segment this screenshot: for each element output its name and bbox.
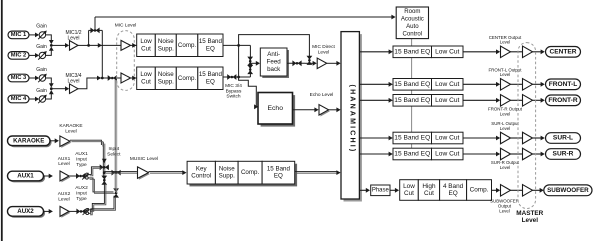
switch MIC1/2 select node [50, 44, 53, 47]
svg-text:Low Cut: Low Cut [435, 151, 459, 158]
svg-text:(HANAMICHI): (HANAMICHI) [349, 85, 356, 154]
wire echo out [293, 109, 316, 111]
switch AUX2 Input Type [76, 209, 85, 215]
wire to output jack FRONT-R [533, 99, 542, 101]
svg-text:Key: Key [196, 166, 208, 173]
svg-text:AUX2: AUX2 [58, 191, 71, 197]
wire bus to Phase [359, 189, 366, 191]
wire MIC2 to select [46, 50, 52, 56]
output jack CENTER [546, 47, 581, 58]
input jack AUX2 [8, 207, 46, 218]
wire to MIC3/4 Level amp [51, 88, 65, 90]
wire direct tap top bar [89, 29, 103, 31]
wire to output jack FRONT-L [533, 83, 542, 85]
label KARAOKE Level [59, 123, 82, 134]
wire AF bypass top [239, 35, 310, 57]
svg-text:Gain: Gain [36, 88, 47, 94]
svg-text:Level: Level [522, 217, 539, 224]
label MASTER Level [516, 210, 543, 224]
wire to master amp sub [511, 189, 523, 191]
node F junction [305, 62, 314, 64]
switch AF out [292, 60, 301, 66]
wire AUX1 lower branch [88, 178, 113, 192]
svg-text:AUX2: AUX2 [17, 208, 34, 215]
output jack SUBWOOFER [544, 185, 592, 196]
amp MIC1/2 Level [70, 41, 79, 51]
wire music chain out stereo [295, 171, 337, 173]
svg-text:15 Band: 15 Band [267, 166, 291, 173]
switch arm AUX1 [82, 173, 88, 180]
box sub Comp. [467, 180, 492, 201]
wire row2 EQ out [223, 76, 250, 78]
output jack FRONT-L [546, 79, 581, 90]
svg-text:Echo: Echo [268, 105, 284, 112]
label Input Select [107, 146, 121, 157]
label Echo Level [310, 92, 334, 98]
svg-text:MIC 4: MIC 4 [11, 96, 27, 102]
svg-text:Room: Room [404, 8, 420, 15]
frame left border [1, 0, 3, 241]
gain pot Gain (MIC 4) [38, 95, 47, 104]
box Low Cut (FRONT-R) [432, 95, 464, 107]
svg-text:4 Band: 4 Band [443, 183, 464, 190]
wire to output jack CENTER [533, 51, 542, 53]
label AUX2 Level [58, 191, 71, 202]
svg-text:Low Cut: Low Cut [435, 97, 459, 104]
arrow KARAOKE drop [102, 159, 107, 163]
amp FRONT-L master level [523, 79, 533, 91]
switch row2 input select [108, 75, 117, 81]
wire top line to Room Acoustic [95, 16, 392, 18]
wire MIC3 to gain [29, 77, 36, 79]
wire amp to node B [78, 44, 89, 46]
box music chain shadow [190, 164, 298, 187]
label MIC 3/4 Bypass Switch [225, 83, 242, 100]
svg-text:15 Band EQ: 15 Band EQ [394, 97, 430, 104]
switch music bus [112, 170, 121, 176]
wire KARAOKE to amp [50, 140, 56, 142]
wire riser to top line [94, 17, 96, 30]
wire AUX2 upper branch [89, 184, 105, 210]
box music Noise Supp. [215, 161, 238, 184]
wire to output jack SUR-R [533, 153, 542, 155]
wire to output jack SUBWOOFER [533, 189, 541, 191]
svg-text:Control: Control [403, 30, 423, 37]
wire MIC1 to gain [29, 34, 36, 36]
label MUSIC Level [130, 156, 158, 162]
svg-text:MIC 1: MIC 1 [11, 32, 27, 38]
svg-text:AUX1: AUX1 [75, 151, 88, 157]
svg-text:EQ: EQ [206, 45, 215, 52]
label CENTER Output Level [489, 35, 522, 45]
wire bus to FRONT-R EQ [359, 99, 389, 101]
switch AF bypass join [307, 56, 313, 65]
label SUR-L Output Level [491, 121, 519, 131]
input jack MIC 1 [8, 31, 29, 39]
wire bus to SUR-R EQ [359, 153, 389, 155]
amp subwoofer output level [501, 185, 511, 197]
box Echo [258, 93, 295, 127]
output jack SUR-L [546, 133, 581, 144]
label MIC Level [115, 23, 137, 29]
svg-text:Level: Level [499, 208, 510, 213]
node C junction row2 [101, 77, 104, 80]
label MIC Direct Level [312, 44, 335, 55]
amp MIC level row2 [121, 73, 131, 83]
amp FRONT-R master level [523, 95, 533, 107]
svg-text:SUBWOOFER: SUBWOOFER [547, 187, 589, 194]
amp CENTER output level [501, 46, 511, 58]
svg-text:Supp.: Supp. [158, 45, 174, 52]
svg-text:MASTER: MASTER [516, 210, 543, 217]
box Low Cut (SUR-R) [432, 148, 464, 160]
svg-text:EQ: EQ [206, 78, 215, 85]
amp MUSIC Level [138, 167, 150, 180]
amp CENTER master level [523, 46, 533, 58]
wire to FRONT-R output level amp [463, 99, 497, 101]
svg-text:Noise: Noise [219, 166, 235, 173]
svg-text:Level: Level [500, 126, 511, 131]
label AUX1 Level [58, 156, 71, 167]
svg-text:Supp.: Supp. [219, 173, 235, 180]
wire to master amp FRONT-R [511, 99, 523, 101]
svg-text:AUX1: AUX1 [17, 173, 34, 180]
svg-text:15 Band EQ: 15 Band EQ [394, 81, 430, 88]
box chain row2 Noise Supp. [155, 67, 176, 90]
svg-text:Gain: Gain [36, 67, 47, 73]
input jack MIC 3 [8, 74, 29, 82]
svg-text:Level: Level [500, 72, 511, 77]
svg-text:Gain: Gain [36, 44, 47, 50]
svg-text:15 Band EQ: 15 Band EQ [394, 48, 430, 55]
label Gain (MIC 4) [36, 88, 47, 94]
wire AUX1 to amp [44, 175, 50, 177]
wire bus to CENTER EQ [359, 51, 389, 53]
switch music-bus mic route [113, 188, 119, 197]
box 15 Band EQ (SUR-L) [393, 132, 432, 144]
node G bus start [103, 171, 106, 174]
svg-text:back: back [267, 66, 281, 73]
wire Phase to Low Cut [390, 189, 396, 191]
wire MUSIC bus to amp [104, 171, 137, 173]
wire to master amp CENTER [511, 51, 523, 53]
label Gain (MIC 1) [36, 24, 47, 30]
label AUX2 Input Type [75, 185, 88, 202]
svg-text:Comp.: Comp. [241, 169, 260, 176]
svg-text:Input: Input [76, 157, 87, 163]
svg-text:KARAOKE: KARAOKE [59, 123, 82, 129]
wire to output jack SUR-L [533, 137, 542, 139]
amp SUR-L master level [523, 132, 533, 144]
svg-text:MIC 3: MIC 3 [11, 75, 27, 81]
box 15 Band EQ (SUR-R) [393, 148, 432, 160]
svg-text:Level: Level [318, 49, 329, 55]
svg-text:Feed: Feed [267, 59, 282, 66]
wire AUX2 lower branch [89, 196, 114, 214]
label MIC1/2 Level [65, 30, 81, 42]
svg-text:Cut: Cut [141, 78, 151, 85]
node D junction [237, 44, 240, 47]
wire KARAOKE stereo to selector [70, 140, 102, 145]
wire node D to node E vertical [238, 45, 240, 77]
switch anti-feedback in upper [247, 57, 253, 66]
svg-text:EQ: EQ [448, 190, 457, 197]
svg-text:FRONT-L: FRONT-L [549, 81, 578, 88]
wire anti-feedback feed vertical [249, 45, 251, 77]
svg-text:EQ: EQ [274, 173, 283, 180]
wire to CENTER output level amp [463, 51, 497, 53]
box sub 4 Band EQ [440, 180, 467, 201]
label FRONT-R Output Level [488, 107, 523, 117]
wire row2 to capsule [96, 77, 108, 79]
wire MIC1 to select [46, 35, 52, 41]
contact AUX2 lower [86, 212, 89, 215]
box chain row2 Low Cut [137, 67, 156, 90]
label FRONT-L Output Level [488, 67, 522, 77]
input jack KARAOKE [8, 136, 52, 147]
wire amp up to row2 [78, 78, 96, 89]
box chain row2 Comp. [176, 67, 198, 90]
svg-text:Auto: Auto [406, 23, 419, 30]
wire echo feed [239, 77, 258, 107]
svg-text:Cut: Cut [404, 190, 414, 197]
svg-text:Level: Level [65, 128, 76, 134]
amp MIC Direct Level [317, 58, 327, 69]
amp KARAOKE Level [60, 136, 71, 148]
wire to SUR-L output level amp [463, 137, 497, 139]
svg-text:SUR-L: SUR-L [553, 135, 573, 142]
svg-text:Cut: Cut [141, 45, 151, 52]
svg-text:Phase: Phase [372, 187, 390, 193]
svg-text:Control: Control [191, 173, 211, 180]
wire to FRONT-L output level amp [463, 83, 497, 85]
amp AUX1 Level [60, 171, 70, 182]
amp FRONT-L output level [501, 79, 511, 91]
amp SUR-R output level [501, 148, 511, 160]
wire into Anti-Feedback [250, 62, 256, 64]
output jack FRONT-R [546, 95, 581, 106]
svg-text:MIC Level: MIC Level [115, 23, 137, 29]
wire node B onward [89, 44, 121, 46]
input jack MIC 4 [8, 95, 29, 103]
svg-text:Comp.: Comp. [178, 75, 197, 82]
dashed group MASTER Level capsule [518, 43, 536, 209]
box 15 Band EQ (FRONT-L) [393, 79, 432, 91]
label AUX1 Input Type [75, 151, 88, 168]
wire to SUR-R output level amp [463, 153, 497, 155]
svg-text:15 Band EQ: 15 Band EQ [394, 135, 430, 142]
svg-text:Noise: Noise [158, 38, 174, 45]
svg-text:Echo Level: Echo Level [310, 92, 334, 98]
amp Echo Level [319, 105, 330, 117]
contact AUX1 upper [86, 173, 89, 176]
label Gain (MIC 2) [36, 44, 47, 50]
contact AUX2 upper [86, 209, 89, 212]
wire music stereo bus vertical [114, 79, 116, 191]
svg-text:Comp.: Comp. [178, 42, 197, 49]
amp SUR-R master level [523, 148, 533, 160]
wire MUSIC amp to Key Control [149, 171, 184, 173]
wire echo into bus [329, 109, 338, 111]
svg-text:MIC 3/4: MIC 3/4 [225, 83, 242, 89]
svg-text:Low Cut: Low Cut [435, 81, 459, 88]
switch measurement mic select [90, 28, 99, 34]
wire AUX2 to input type switch [69, 210, 77, 212]
svg-text:CENTER: CENTER [549, 48, 576, 55]
bus box (HANAMICHI) [341, 32, 362, 202]
gain pot Gain (MIC 1) [38, 31, 47, 40]
svg-text:Cut: Cut [424, 190, 434, 197]
box chain row1 Comp. [176, 34, 198, 57]
svg-text:Low: Low [140, 71, 152, 78]
box chain row1 15 Band EQ [198, 34, 223, 57]
svg-text:Noise: Noise [158, 71, 174, 78]
svg-text:Acoustic: Acoustic [401, 16, 424, 23]
box Anti-Feedback [260, 48, 289, 78]
wire AUX1 upper branch [88, 167, 100, 175]
switch karaoke lower [101, 176, 107, 185]
node E junction row2 [237, 76, 240, 79]
wire to MIC1/2 Level amp [51, 44, 65, 46]
box Low Cut (SUR-L) [432, 132, 464, 144]
box chain row2 15 Band EQ [198, 67, 223, 90]
svg-text:Anti-: Anti- [267, 51, 280, 58]
svg-text:MIC 2: MIC 2 [11, 52, 26, 58]
node B junction [87, 44, 90, 47]
box Room Acoustic Auto Control [396, 7, 428, 39]
switch arm AUX2 [83, 208, 89, 215]
gain pot Gain (MIC 2) [38, 51, 47, 60]
svg-text:Gain: Gain [36, 24, 47, 30]
svg-text:Level: Level [500, 165, 511, 170]
label MIC3/4 Level [65, 73, 81, 85]
box sub High Cut [418, 180, 439, 201]
switch input select karaoke [100, 164, 109, 170]
wire direct tap right riser [101, 30, 103, 78]
wire capsule row2 out [131, 77, 137, 79]
box 15 Band EQ (FRONT-R) [393, 95, 432, 107]
svg-text:Input: Input [76, 190, 87, 196]
amp MIC level row1 [121, 40, 131, 50]
box Key Control [187, 161, 215, 184]
switch MIC 3/4 bypass [227, 74, 236, 80]
svg-text:Switch: Switch [226, 94, 240, 100]
svg-text:15 Band: 15 Band [199, 38, 223, 45]
box Low Cut (CENTER) [432, 46, 464, 58]
wire AUX2 to amp [44, 210, 50, 212]
svg-text:Low Cut: Low Cut [435, 135, 459, 142]
box chain row1 Low Cut [137, 34, 156, 57]
amp MIC3/4 Level [70, 84, 79, 94]
input jack MIC 2 [8, 52, 29, 60]
wire AUX1 to input type switch [69, 175, 76, 177]
amp SUR-L output level [501, 132, 511, 144]
wire Comp to sub amp [492, 189, 498, 191]
wire MIC4 to gain [29, 98, 36, 100]
svg-text:Supp.: Supp. [158, 78, 174, 85]
wire direct tap left riser [88, 30, 90, 45]
box 15 Band EQ (CENTER) [393, 46, 432, 58]
svg-text:Input: Input [108, 146, 119, 152]
label Gain (MIC 3) [36, 67, 47, 73]
svg-text:Low Cut: Low Cut [435, 48, 459, 55]
svg-text:15 Band: 15 Band [199, 71, 223, 78]
wire capsule row1 out [131, 44, 137, 46]
contact AUX1 lower [86, 177, 89, 180]
svg-text:Level: Level [500, 40, 511, 45]
switch anti-feedback in lower [247, 65, 253, 74]
amp AUX2 Level [60, 206, 70, 217]
wire to master amp FRONT-L [511, 83, 523, 85]
wire MIC3 to select [46, 78, 52, 85]
wire to master amp SUR-L [511, 137, 523, 139]
svg-text:Low: Low [140, 38, 152, 45]
amp subwoofer master level [523, 185, 533, 197]
svg-text:KARAOKE: KARAOKE [13, 137, 44, 144]
wire MIC4 to select [46, 93, 52, 99]
svg-text:MIC Direct: MIC Direct [312, 44, 335, 50]
switch AUX1 Input Type [76, 173, 85, 179]
wire bus to SUR-L EQ [359, 137, 389, 139]
svg-text:Select: Select [107, 152, 121, 158]
svg-text:MUSIC Level: MUSIC Level [130, 156, 158, 162]
svg-text:Comp.: Comp. [470, 187, 489, 194]
box chain row1 Noise Supp. [155, 34, 176, 57]
svg-text:High: High [422, 183, 436, 190]
svg-text:Level: Level [58, 197, 69, 203]
dashed group MIC Level capsule [117, 31, 135, 91]
gain pot Gain (MIC 3) [38, 74, 47, 83]
svg-text:AUX2: AUX2 [75, 185, 88, 191]
wire bus to FRONT-L EQ [359, 83, 389, 85]
svg-text:AUX1: AUX1 [58, 156, 71, 162]
svg-text:Bypass: Bypass [226, 88, 242, 94]
wire row1 EQ out [223, 44, 250, 46]
svg-text:15 Band EQ: 15 Band EQ [394, 151, 430, 158]
input jack AUX1 [8, 171, 46, 182]
svg-text:FRONT-R: FRONT-R [548, 97, 578, 104]
label SUBWOOFER Output Level [490, 199, 519, 214]
box Phase [371, 185, 390, 196]
box Low Cut (FRONT-L) [432, 79, 464, 91]
box music Comp. [238, 161, 262, 184]
wire MIC2 to gain [29, 54, 36, 56]
box sub Low Cut [400, 180, 419, 201]
wire to master amp SUR-R [511, 153, 523, 155]
wire MIC direct into bus [327, 62, 338, 64]
svg-text:SUR-R: SUR-R [553, 151, 574, 158]
label SUR-R Output Level [491, 160, 520, 170]
svg-text:Type: Type [76, 162, 87, 168]
amp FRONT-R output level [501, 95, 511, 107]
control line room vertical [411, 39, 413, 159]
output jack SUR-R [546, 149, 581, 160]
svg-text:Level: Level [500, 111, 511, 116]
switch MIC3/4 select node [50, 87, 53, 90]
box music 15 Band EQ [262, 161, 295, 184]
svg-text:Level: Level [58, 161, 69, 167]
svg-text:Type: Type [76, 196, 87, 202]
wire AF out [287, 62, 305, 64]
svg-text:Low: Low [403, 183, 415, 190]
